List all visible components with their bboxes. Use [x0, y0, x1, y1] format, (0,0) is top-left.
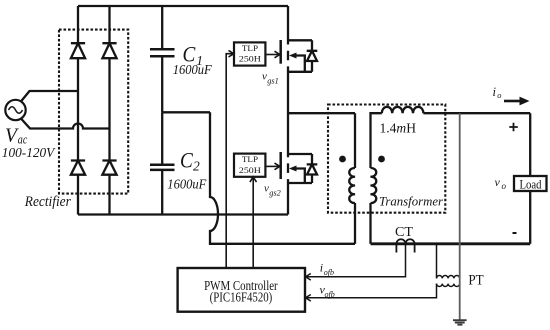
capacitor C1 — [150, 6, 175, 112]
label 1.4mH — [380, 121, 417, 136]
svg-text:1600uF: 1600uF — [167, 178, 206, 193]
rectifier dashed box — [59, 30, 128, 194]
diode D1 — [71, 43, 85, 58]
inductor primary winding — [349, 168, 355, 203]
label plus — [509, 123, 518, 132]
label minus — [513, 232, 517, 234]
pwm controller box — [178, 268, 305, 312]
transformer PT secondary winding — [437, 284, 460, 287]
svg-text:gs2: gs2 — [269, 187, 281, 197]
wire mid rail with hop over bottom dc rail — [210, 112, 355, 244]
wire ac bottom lead with hop over left bridge leg — [21, 118, 110, 129]
label vo — [495, 175, 507, 191]
wire bridge midpoint to primary — [288, 113, 355, 168]
ac source Vac — [5, 100, 25, 120]
wire PT to ground gray line — [459, 113, 461, 320]
svg-text:Transformer: Transformer — [379, 193, 444, 208]
svg-text:PT: PT — [468, 272, 483, 288]
wire U1 output arrow to gate — [265, 51, 279, 58]
label PT — [468, 272, 483, 288]
svg-text:(PIC16F4520): (PIC16F4520) — [210, 290, 273, 305]
arrow io — [504, 97, 530, 106]
label TLP 250H U1 — [239, 43, 262, 64]
svg-text:i: i — [320, 260, 323, 274]
transformer dashed box — [328, 105, 445, 213]
wire bottom dc rail — [78, 213, 288, 215]
svg-text:1.4mH: 1.4mH — [380, 121, 417, 136]
svg-text:o: o — [497, 90, 501, 100]
wire output right rail — [529, 113, 531, 244]
label C2 — [180, 147, 200, 173]
gate driver U1 TLP250H — [234, 42, 265, 65]
wire CT to pwm iofb — [306, 244, 406, 280]
label 1600uF C1 — [173, 63, 212, 78]
transformer PT primary winding — [437, 244, 460, 279]
wire pwm to U1 input — [226, 50, 234, 268]
label 1600uF C2 — [167, 178, 206, 193]
svg-text:250H: 250H — [239, 165, 262, 175]
svg-text:CT: CT — [395, 224, 414, 239]
diode D3 — [71, 161, 85, 175]
gate driver U2 TLP250H — [234, 154, 265, 177]
inductor L 1.4mH — [382, 107, 424, 113]
diode body Q1 — [307, 51, 318, 61]
label TLP 250H U2 — [239, 154, 262, 175]
svg-text:ofb: ofb — [325, 290, 335, 299]
label 100-120V — [2, 146, 56, 161]
ground — [453, 320, 467, 325]
capacitor C2 — [150, 112, 175, 214]
wire PT secondary to pwm vofb — [306, 284, 437, 302]
svg-text:o: o — [502, 181, 507, 191]
svg-text:ac: ac — [18, 132, 28, 146]
diode D2 — [102, 43, 116, 58]
svg-text:250H: 250H — [239, 54, 262, 64]
wire capacitor midpoint to mid rail — [162, 111, 210, 113]
label CT — [395, 224, 414, 239]
node dot secondary — [378, 156, 385, 163]
wire top dc bus — [78, 5, 288, 7]
wire bridge leg 2 — [108, 6, 110, 215]
load box — [514, 176, 547, 191]
svg-text:1600uF: 1600uF — [173, 63, 212, 78]
wire U2 output arrow to gate — [265, 163, 279, 170]
svg-text:i: i — [493, 85, 497, 99]
transistor Q2 mosfet lower — [281, 152, 312, 183]
label PWM Controller — [204, 278, 278, 293]
transformer CT current transformer — [396, 239, 414, 252]
label Rectifier — [24, 194, 71, 210]
svg-text:v: v — [495, 175, 501, 189]
svg-text:2: 2 — [193, 159, 200, 174]
label PIC16F4520 — [210, 290, 273, 305]
svg-text:gs1: gs1 — [267, 76, 279, 86]
wire pwm to U2 input — [250, 177, 257, 268]
wire secondary bottom lead — [369, 203, 371, 244]
label Transformer — [379, 193, 444, 208]
wire half-bridge vertical — [287, 6, 289, 215]
transistor Q1 mosfet upper — [281, 40, 312, 72]
label vofb — [320, 283, 335, 299]
diode D4 — [102, 161, 116, 175]
diode body Q2 — [307, 164, 318, 174]
label Load — [520, 178, 543, 192]
svg-text:100-120V: 100-120V — [2, 146, 56, 161]
wire secondary top lead — [371, 113, 382, 168]
label iofb — [320, 260, 334, 277]
svg-text:v: v — [264, 182, 269, 194]
svg-text:ofb: ofb — [324, 268, 334, 277]
svg-text:C: C — [180, 147, 193, 172]
label vgs1 — [262, 71, 279, 86]
wire bridge leg 1 — [77, 6, 79, 215]
svg-text:Rectifier: Rectifier — [24, 194, 71, 210]
label vgs2 — [264, 182, 282, 197]
wire output top rail — [423, 112, 530, 114]
svg-text:v: v — [262, 71, 267, 83]
svg-text:TLP: TLP — [242, 154, 258, 164]
wire output bottom bus — [371, 242, 531, 245]
inductor secondary winding — [371, 168, 377, 203]
svg-text:TLP: TLP — [242, 43, 258, 53]
label C1 — [183, 42, 204, 68]
wire primary bottom lead — [354, 203, 356, 244]
label Vac — [5, 126, 28, 147]
node dot primary — [339, 156, 346, 163]
label io — [493, 85, 502, 100]
wire ac top lead — [21, 91, 79, 102]
svg-text:Load: Load — [520, 178, 543, 192]
